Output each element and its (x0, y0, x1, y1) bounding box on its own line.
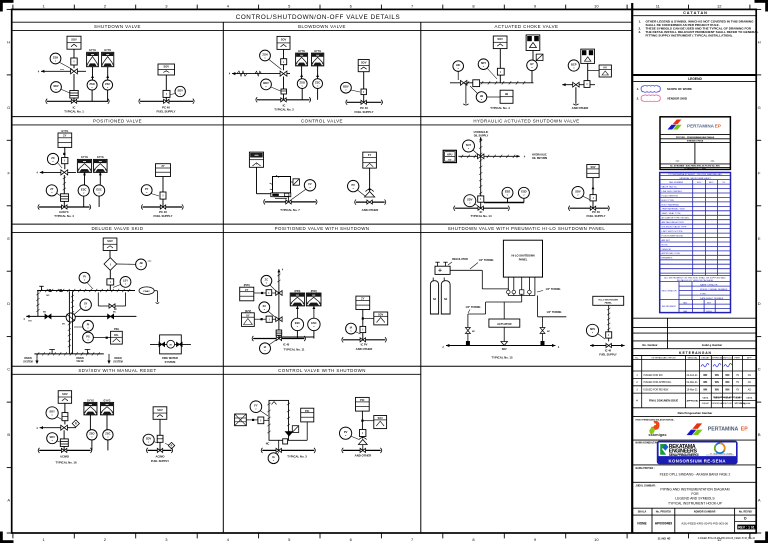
svg-text:DRAIN: DRAIN (24, 357, 32, 360)
nitrogen cylinder 2 (441, 281, 450, 314)
panel drop lines (507, 277, 509, 295)
svg-text:TYPICAL INSTRUMENT HOOK-UP: TYPICAL INSTRUMENT HOOK-UP (668, 501, 723, 505)
svg-text:D: D (744, 517, 747, 521)
svg-text:2.: 2. (637, 97, 640, 101)
svg-text:XY: XY (246, 313, 250, 317)
svg-text:LSY: LSY (123, 279, 128, 283)
drop line (608, 305, 610, 341)
air header (143, 206, 183, 208)
side box (374, 312, 388, 325)
svg-text:SOV: SOV (157, 408, 163, 412)
wire (592, 178, 594, 195)
svg-text:FLUID SERVICE: FLUID SERVICE (662, 195, 679, 197)
pilot valve box (71, 58, 77, 65)
skid box (160, 335, 182, 354)
small box (283, 439, 288, 444)
svg-text:NO: NO (43, 312, 47, 314)
fittings (512, 290, 516, 294)
wire (109, 270, 111, 279)
svg-text:SOV: SOV (164, 65, 170, 69)
svg-text:ZSC: ZSC (315, 80, 320, 84)
revision rows text (636, 374, 751, 392)
svg-text:DIBUAT: DIBUAT (702, 402, 710, 405)
bottom line (590, 345, 625, 347)
pilot box (361, 89, 366, 95)
svg-text:KETERANGAN / REVISI: KETERANGAN / REVISI (652, 356, 676, 359)
title bar line (12, 21, 633, 23)
pilot box (107, 279, 114, 285)
svg-text:ESC: ESC (96, 187, 101, 191)
air header (257, 99, 310, 101)
wire (165, 75, 167, 90)
svg-text:VENDOR SKID: VENDOR SKID (667, 97, 687, 101)
svg-text:VENDOR: VENDOR (662, 249, 672, 251)
svg-text:PT PERTAMINA EP ASSET - PROYEK: PT PERTAMINA EP ASSET - PROYEK KARUNIA G… (668, 173, 722, 176)
pilot box (478, 196, 484, 202)
svg-text:TYPICAL No. 4: TYPICAL No. 4 (490, 106, 510, 110)
svg-text:NOTE: NOTE (662, 244, 669, 246)
svg-text:PANEL: PANEL (519, 257, 528, 261)
svg-text:PSH: PSH (114, 328, 119, 331)
svg-text:E: E (758, 236, 761, 241)
svg-text:No. REVISI: No. REVISI (739, 511, 752, 514)
solenoid box (103, 238, 117, 251)
wire (64, 164, 66, 170)
corner mark top-right (755, 0, 768, 3)
svg-text:12: 12 (717, 4, 722, 9)
svg-text:CONTROL VALVE: CONTROL VALVE (301, 119, 343, 124)
svg-text:IC 40: IC 40 (605, 348, 612, 352)
svg-text:SENA PRIMA ENERGI: SENA PRIMA ENERGI (669, 453, 699, 457)
wire (301, 66, 303, 79)
svg-text:DIPERIKSA: DIPERIKSA (711, 402, 722, 405)
notes text (639, 19, 759, 37)
svg-text:CONTROL VALVE WITH SHUTDOWN: CONTROL VALVE WITH SHUTDOWN (278, 368, 366, 373)
svg-text:FWAC: FWAC (143, 290, 150, 293)
hand pump box (443, 150, 456, 162)
svg-text:TYPICAL No. 16: TYPICAL No. 16 (55, 460, 77, 464)
wire (154, 290, 157, 292)
svg-text:FINAL DOKUMEN ISSUE: FINAL DOKUMEN ISSUE (649, 400, 678, 403)
svg-text:DRAIN: DRAIN (76, 357, 84, 360)
svg-text:PERTAMINA EP ASSET 3 KSO: PERTAMINA EP ASSET 3 KSO (713, 396, 742, 399)
svg-text:LEGEND: LEGEND (688, 77, 702, 81)
svg-text:SOV: SOV (378, 313, 383, 316)
svg-text:TYPICAL No. 1: TYPICAL No. 1 (64, 110, 84, 114)
svg-text:SHUTDOWN VALVE: SHUTDOWN VALVE (94, 24, 141, 29)
wire (283, 77, 285, 90)
drop to actuator (521, 296, 523, 303)
bubble SDV (598, 334, 606, 340)
pipe through (150, 343, 191, 345)
manual reset diamond (168, 442, 174, 448)
svg-text:22-Feb-21: 22-Feb-21 (687, 374, 699, 377)
svg-text:04-Mar-21: 04-Mar-21 (687, 381, 699, 384)
svg-text:IA: IA (272, 455, 275, 459)
control valve body (dark) (285, 431, 294, 436)
pilot box stacked (62, 413, 68, 421)
wire (165, 97, 167, 101)
wire (63, 175, 65, 194)
wire (83, 196, 85, 207)
wire (363, 95, 365, 103)
svg-text:EP: EP (715, 123, 721, 128)
svg-text:OIL SUPPLY: OIL SUPPLY (474, 134, 489, 137)
title block rows (632, 317, 756, 319)
svg-text:BDV: BDV (343, 85, 349, 89)
svg-text:SOV: SOV (71, 37, 77, 41)
svg-text:m: m (170, 343, 172, 346)
svg-text:FUEL SUPPLY: FUEL SUPPLY (599, 353, 617, 357)
wire (64, 403, 66, 412)
svg-text:R: R (75, 422, 77, 426)
svg-text:PV: PV (351, 183, 355, 187)
instrument bubble SSV (59, 62, 73, 70)
bubble ESC 2 (308, 318, 320, 330)
right branch (542, 317, 544, 341)
svg-text:ZY: ZY (161, 164, 165, 168)
actuator box (587, 165, 599, 178)
bubble JB (136, 259, 147, 270)
instrument bubble SDV (61, 89, 72, 94)
process pipe with spec breaks (232, 73, 290, 75)
svg-text:Judul g Gambar: Judul g Gambar (702, 343, 722, 347)
actuator box (489, 319, 520, 327)
svg-text:SDV: SDV (590, 327, 596, 331)
svg-text:WN: WN (725, 381, 729, 384)
svg-text:E: E (7, 236, 10, 241)
wire PS to PSH (93, 337, 110, 339)
wire (256, 167, 258, 193)
hi-lo panel box (503, 240, 542, 277)
rev black box (737, 525, 755, 530)
air header (148, 449, 172, 451)
svg-text:APPROVAL: APPROVAL (687, 400, 700, 403)
bubble ESC 2 (518, 187, 529, 198)
svg-text:DATA SHEET NUMBER: DATA SHEET NUMBER (700, 297, 724, 300)
svg-text:FY: FY (254, 404, 258, 408)
pertamina logo arrows (668, 119, 682, 129)
svg-text:SDV: SDV (53, 84, 59, 88)
svg-text:AIR SET: AIR SET (662, 239, 671, 242)
block valve dot 2 (59, 289, 62, 292)
panel grid vertical divider 1 (222, 22, 224, 533)
svg-text:NAMA: NAMA (702, 397, 708, 400)
svg-text:D: D (7, 301, 10, 306)
bubble SDV (57, 441, 62, 443)
svg-text:ACTUATED CHOKE VALVE: ACTUATED CHOKE VALVE (495, 24, 559, 29)
pilot box (281, 59, 287, 65)
svg-text:GYYG: GYYG (104, 49, 111, 52)
bubble PI (87, 283, 93, 290)
svg-text:KONSORSIUM RE-SENA: KONSORSIUM RE-SENA (669, 458, 726, 463)
svg-text:AS: AS (748, 381, 752, 384)
valve black 2 (108, 314, 114, 319)
svg-text:PV: PV (344, 430, 348, 434)
svg-text:SDV: SDV (178, 88, 184, 92)
svg-text:PIC: PIC (305, 409, 309, 413)
revision table grid (632, 356, 756, 408)
wire (363, 72, 365, 89)
wire (283, 65, 285, 71)
hydraulic supply line vertical (480, 137, 482, 208)
corner mark bottom-left (0, 540, 14, 543)
wire (283, 49, 285, 58)
left tubing (468, 313, 486, 315)
choke actuator box (526, 35, 540, 51)
svg-text:No. Gambar: No. Gambar (642, 343, 657, 347)
svg-text:TYPICAL No. 3: TYPICAL No. 3 (287, 454, 307, 458)
svg-text:HI-LO SHUTDOWN: HI-LO SHUTDOWN (511, 253, 534, 257)
air header (347, 101, 381, 103)
choke valve body (573, 82, 579, 87)
svg-text:TYPE: TYPE (700, 293, 706, 295)
actuator box (158, 64, 175, 75)
pilot box on line (497, 68, 504, 75)
wire (89, 415, 91, 430)
valve body (61, 425, 68, 430)
svg-text:GENERAL VALVE DATA SHEET: GENERAL VALVE DATA SHEET (679, 177, 711, 180)
corner mark top-left (0, 0, 14, 3)
panel row divider lines (12, 30, 633, 32)
svg-text:BCP: BCP (571, 62, 577, 66)
wire (73, 65, 75, 68)
svg-text:10: 10 (594, 4, 599, 9)
wire (301, 89, 303, 100)
svg-text:HIC: HIC (456, 63, 461, 67)
svg-text:No.: No. (635, 357, 639, 359)
bubble SDV (475, 204, 479, 207)
converter box with X (235, 414, 247, 426)
wire (499, 75, 501, 83)
svg-text:AND OTHER: AND OTHER (356, 347, 373, 351)
bubble SOY (57, 417, 63, 420)
svg-text:SDV: SDV (50, 435, 56, 439)
svg-text:ZY: ZY (245, 288, 249, 292)
svg-text:H: H (7, 39, 10, 44)
svg-text:IC PV: IC PV (361, 342, 368, 346)
bubble ESC 1 (502, 187, 513, 198)
solenoid box (58, 391, 71, 404)
wire (63, 201, 65, 207)
svg-text:PERT: PERT (735, 357, 741, 359)
notes box bottom (thick) (632, 74, 756, 76)
air header (253, 338, 304, 340)
svg-text:FUEL SUPPLY: FUEL SUPPLY (154, 214, 173, 218)
wire (465, 83, 467, 104)
svg-text:ACTUATOR TYPE / MODEL: ACTUATOR TYPE / MODEL (662, 217, 690, 220)
panel header texts (78, 24, 605, 373)
svg-text:H: H (758, 39, 761, 44)
svg-text:REMARKS: REMARKS (662, 257, 673, 260)
svg-text:SOV: SOV (62, 392, 68, 396)
svg-text:1/4" TUBING: 1/4" TUBING (546, 288, 561, 291)
air header (140, 100, 193, 102)
svg-text:REGULATOR: REGULATOR (452, 258, 468, 261)
svg-text:SET: SET (707, 302, 712, 304)
air header (343, 339, 385, 341)
svg-text:1.: 1. (637, 87, 640, 91)
svg-text:(P06): (P06) (294, 290, 300, 293)
skkmigas logo (651, 421, 659, 430)
svg-text:XC: XC (262, 304, 266, 308)
bubble IA (268, 340, 276, 346)
bubble PS (83, 332, 94, 343)
bubble FV (292, 190, 306, 200)
rekayasa logo mark (660, 444, 666, 455)
svg-text:GYYG: GYYG (81, 156, 88, 159)
svg-text:FUEL SUPPLY: FUEL SUPPLY (151, 459, 169, 463)
svg-text:ESD: ESD (521, 190, 526, 194)
wire (361, 411, 363, 438)
pilot box (163, 90, 170, 97)
actuator box (153, 407, 167, 420)
svg-text:SYSTEM: SYSTEM (113, 362, 123, 364)
svg-text:FUEL SUPPLY: FUEL SUPPLY (355, 110, 374, 114)
svg-text:DRAIN: DRAIN (114, 357, 122, 360)
wire (278, 335, 280, 338)
wire (84, 172, 86, 184)
svg-text:JB: JB (505, 92, 508, 96)
svg-text:LIMIT SWITCH TYPE: LIMIT SWITCH TYPE (662, 231, 684, 233)
svg-text:TYPICAL No. 14: TYPICAL No. 14 (470, 214, 492, 218)
diamond logic (104, 258, 117, 271)
svg-text:WN: WN (725, 389, 729, 392)
svg-text:ESD: ESD (505, 190, 510, 194)
svg-text:NC: NC (266, 443, 270, 446)
wire (246, 419, 258, 421)
hydraulic return line (458, 155, 520, 157)
wire (532, 51, 534, 60)
valve black 1 (45, 314, 51, 319)
bubble ZSC (313, 79, 323, 89)
svg-text:SY: SY (84, 302, 88, 306)
svg-text:VALVE: VALVE (76, 360, 84, 363)
collector line (508, 295, 535, 297)
diag box (292, 426, 298, 433)
bubble HY (527, 60, 538, 71)
svg-text:ZSH: ZSH (262, 52, 267, 56)
svg-text:ZT: ZT (50, 187, 54, 191)
air header (39, 449, 90, 451)
bubble JB (470, 86, 477, 93)
bubble ZSC (103, 80, 113, 90)
bubble SY (74, 309, 81, 315)
bubble PY (151, 194, 159, 197)
pilot box (590, 195, 596, 201)
svg-text:NC: NC (547, 331, 551, 333)
svg-text:AS: AS (748, 374, 752, 377)
svg-text:SOV: SOV (281, 38, 287, 42)
wire (575, 87, 577, 104)
svg-text:AC/MO: AC/MO (60, 454, 69, 458)
svg-text:24 SINDANG-04 xxx-1955: 24 SINDANG-04 xxx-1955 (684, 167, 705, 170)
svg-text:(P06): (P06) (311, 290, 317, 293)
blue instrument data table (660, 173, 731, 313)
svg-text:TYPICAL No. 11: TYPICAL No. 11 (284, 347, 305, 351)
wire (283, 94, 285, 100)
svg-text:19-Mar-21: 19-Mar-21 (687, 389, 699, 392)
air header (47, 100, 108, 102)
svg-text:FUEL SUPPLY: FUEL SUPPLY (157, 110, 176, 114)
wire (73, 98, 75, 101)
junction box (473, 80, 480, 87)
controller box (356, 296, 370, 309)
bubble SDV (154, 442, 159, 444)
svg-text:HO: HO (28, 321, 32, 323)
svg-text:AIR FAILURE ACTION: AIR FAILURE ACTION (662, 221, 685, 224)
svg-text:SPV ENG g: SPV ENG g (735, 403, 746, 405)
svg-text:SDV: SDV (697, 182, 702, 184)
regulator assembly (435, 266, 450, 274)
svg-text:K E T E R A N G A N: K E T E R A N G A N (679, 351, 711, 355)
svg-text:TAG NUMBER: TAG NUMBER (669, 181, 684, 184)
wire (73, 49, 75, 58)
svg-text:NOMOR GAMBAR: NOMOR GAMBAR (694, 511, 716, 514)
drain valve T 1 (51, 350, 53, 354)
wire (109, 251, 111, 258)
svg-text:FV: FV (308, 182, 312, 186)
lower pipe (26, 315, 136, 317)
svg-text:SDV: SDV (146, 437, 152, 441)
bubble XC (268, 311, 275, 317)
svg-text:WN: WN (725, 374, 729, 377)
inner circle (167, 340, 175, 348)
control valve globe (358, 440, 367, 445)
bubble BCP (568, 60, 579, 71)
svg-text:DELUGE VALVE SKID: DELUGE VALVE SKID (92, 226, 144, 231)
svg-text:PANEL: PANEL (605, 302, 613, 305)
svg-text:YN: YN (736, 389, 740, 392)
bubble ZC (57, 162, 62, 168)
bubble IA (277, 452, 279, 456)
svg-text:TRIM MATERIAL / SIZE: TRIM MATERIAL / SIZE (662, 208, 686, 211)
solenoid box (277, 36, 290, 49)
pilot box 2 (266, 316, 272, 322)
svg-text:ISSUED FOR APPROVAL: ISSUED FOR APPROVAL (644, 381, 673, 384)
column headers tiny (635, 356, 752, 359)
svg-text:ISSUED FOR IDC: ISSUED FOR IDC (644, 374, 664, 377)
svg-text:D: D (758, 301, 761, 306)
svg-text:SOV: SOV (590, 166, 595, 169)
svg-text:HV: HV (448, 159, 452, 161)
air header (265, 201, 316, 203)
instrument bubble SDV (170, 94, 176, 95)
svg-text:SHUTDOWN VALVE WITH PNEUMAT: SHUTDOWN VALVE WITH PNEUMATIC HI-LO SHUT… (448, 226, 606, 231)
svg-text:SOV: SOV (497, 37, 503, 41)
svg-text:BDV: BDV (709, 182, 714, 184)
svg-text:IA: IA (350, 325, 353, 329)
bypass frame (97, 292, 99, 306)
svg-text:WN: WN (715, 389, 719, 392)
svg-text:I: I (110, 262, 111, 266)
controller box PIC (301, 408, 314, 422)
svg-text:WN: WN (703, 381, 707, 384)
control valve globe (365, 192, 375, 198)
small panel box (593, 296, 624, 305)
ellipse FWAC (139, 287, 154, 295)
drain header (34, 353, 103, 355)
two-cell signature area (694, 143, 696, 164)
svg-text:LAH: LAH (683, 310, 688, 313)
bottom pipe (446, 345, 555, 347)
svg-text:BODY TYPE: BODY TYPE (662, 200, 675, 202)
bubble ESC (94, 185, 105, 196)
wire (91, 440, 93, 450)
valve black 1 (159, 342, 165, 346)
svg-text:GYYG: GYYG (97, 156, 104, 159)
valve body 2 (276, 317, 282, 322)
